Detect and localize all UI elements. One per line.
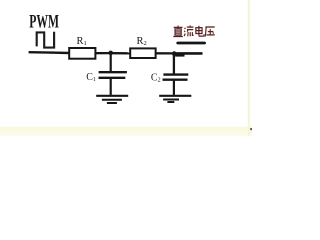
resistor R1: [69, 48, 95, 59]
node A junction dot: [108, 51, 113, 56]
resistor R2: [130, 48, 155, 58]
svg-text:PWM: PWM: [29, 13, 59, 33]
ground (C2 branch): [159, 95, 191, 97]
wire R2 to node B: [156, 52, 173, 54]
right cream border line: [248, 0, 250, 136]
wire R1 to node A: [95, 52, 109, 54]
output pointer line under label: [178, 42, 205, 45]
ground (C1 branch): [96, 95, 128, 97]
wire C2 bottom lead: [173, 80, 175, 95]
wire thick stub under output: [175, 54, 184, 56]
wire input segment: [29, 51, 70, 54]
wire C1 bottom lead: [110, 78, 112, 95]
glyph liu: [184, 26, 193, 37]
capacitor C1: [99, 71, 127, 73]
wire node A to R2: [112, 52, 130, 54]
wire output segment: [175, 52, 203, 55]
wire C2 top lead: [173, 54, 175, 74]
speck bottom-right: [250, 128, 252, 130]
capacitor C2: [163, 73, 188, 75]
glyph ya: [205, 27, 214, 36]
wire C1 top lead: [110, 53, 112, 71]
glyph zhi: [173, 26, 183, 37]
glyph dian: [196, 26, 204, 36]
node B junction dot: [172, 51, 177, 56]
page background: [0, 0, 252, 136]
PWM square-wave symbol: [37, 32, 54, 48]
label DC voltage (zhi liu dian ya) drawn glyphs: [173, 26, 214, 37]
